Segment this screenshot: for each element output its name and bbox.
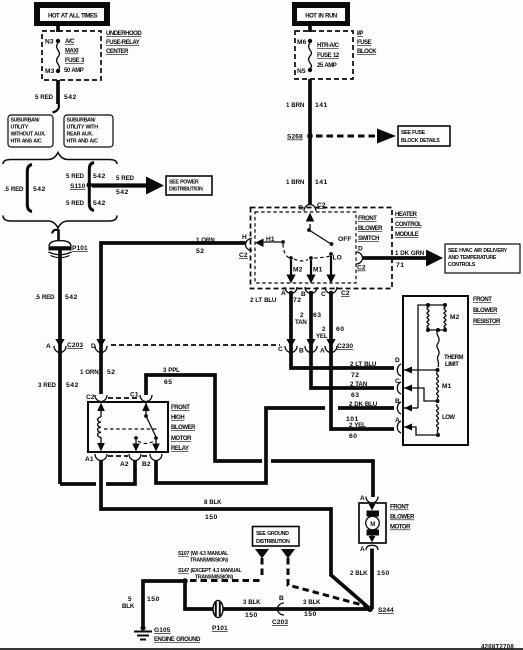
svg-text:25 AMP: 25 AMP — [317, 63, 337, 69]
svg-text:RESISTOR: RESISTOR — [473, 319, 501, 325]
svg-text:FUSE-RELAY: FUSE-RELAY — [106, 40, 140, 46]
svg-text:71: 71 — [396, 262, 404, 269]
svg-text:P101: P101 — [212, 625, 228, 632]
svg-text:S268: S268 — [287, 134, 303, 141]
svg-text:B: B — [279, 595, 284, 602]
svg-text:C: C — [395, 378, 400, 385]
svg-text:BLOCK: BLOCK — [357, 49, 377, 55]
svg-text:G105: G105 — [154, 627, 171, 634]
svg-text:5 RED: 5 RED — [35, 94, 54, 101]
svg-text:LIMIT: LIMIT — [445, 362, 459, 368]
svg-text:S110: S110 — [70, 183, 86, 190]
svg-text:BLOWER: BLOWER — [171, 425, 196, 431]
svg-text:2 YEL: 2 YEL — [349, 422, 366, 429]
svg-text:BLOWER: BLOWER — [358, 226, 383, 232]
svg-text:HTR AND A/C: HTR AND A/C — [67, 139, 99, 145]
svg-text:1 ORN: 1 ORN — [196, 237, 215, 244]
svg-text:MODULE: MODULE — [395, 232, 419, 238]
svg-text:A2: A2 — [120, 461, 129, 468]
svg-text:5 RED: 5 RED — [66, 200, 85, 207]
svg-text:N3: N3 — [45, 39, 54, 46]
svg-text:A: A — [281, 290, 286, 297]
svg-text:BLOWER: BLOWER — [473, 308, 498, 314]
svg-text:MAXI: MAXI — [65, 49, 79, 55]
svg-text:60: 60 — [349, 433, 357, 440]
svg-text:2: 2 — [300, 312, 304, 319]
svg-text:C: C — [321, 291, 326, 298]
svg-text:542: 542 — [33, 186, 46, 193]
svg-text:2: 2 — [322, 326, 326, 333]
svg-text:C2: C2 — [239, 252, 248, 259]
svg-text:TRANSMISSION): TRANSMISSION) — [195, 575, 233, 581]
svg-text:SWITCH: SWITCH — [358, 236, 379, 242]
svg-text:M2: M2 — [450, 314, 460, 321]
svg-text:C203: C203 — [272, 619, 288, 626]
svg-text:2 LT BLU: 2 LT BLU — [250, 297, 277, 304]
svg-text:A: A — [320, 348, 325, 355]
svg-text:C2: C2 — [317, 202, 326, 209]
svg-text:5 RED: 5 RED — [116, 175, 135, 182]
svg-text:1 ORN: 1 ORN — [80, 369, 99, 376]
svg-text:3 RED: 3 RED — [38, 382, 57, 389]
svg-text:52: 52 — [107, 369, 115, 376]
svg-text:M1: M1 — [442, 383, 452, 390]
svg-text:SEE GROUND: SEE GROUND — [256, 531, 289, 537]
svg-text:2 LT BLU: 2 LT BLU — [350, 361, 377, 368]
svg-text:MOTOR: MOTOR — [171, 436, 192, 442]
svg-text:UNDERHOOD: UNDERHOOD — [106, 31, 142, 37]
svg-text:C2: C2 — [357, 265, 366, 272]
svg-text:FUSE: FUSE — [357, 40, 372, 46]
svg-text:5: 5 — [128, 596, 132, 603]
svg-text:60: 60 — [336, 326, 344, 333]
svg-text:FUSE 12: FUSE 12 — [317, 53, 340, 59]
svg-text:G: G — [298, 205, 303, 212]
svg-text:5 RED: 5 RED — [66, 173, 85, 180]
svg-text:HTR-A/C: HTR-A/C — [317, 43, 340, 49]
svg-text:A: A — [360, 546, 365, 553]
svg-text:B: B — [299, 348, 304, 355]
svg-text:542: 542 — [93, 173, 106, 180]
svg-text:A: A — [395, 417, 400, 424]
svg-text:M: M — [370, 522, 375, 528]
svg-text:FRONT: FRONT — [171, 405, 190, 411]
svg-text:CONTROL: CONTROL — [395, 222, 422, 228]
svg-text:REAR AUX.: REAR AUX. — [67, 132, 94, 138]
svg-text:FRONT: FRONT — [473, 297, 492, 303]
svg-text:D: D — [358, 246, 363, 253]
svg-text:S244: S244 — [378, 607, 394, 614]
svg-text:FUSE 3: FUSE 3 — [65, 58, 85, 64]
svg-text:DISTRIBUTION: DISTRIBUTION — [169, 187, 203, 193]
svg-text:RELAY: RELAY — [171, 446, 189, 452]
svg-text:AND TEMPERATURE: AND TEMPERATURE — [448, 255, 497, 261]
svg-text:150: 150 — [304, 611, 317, 618]
svg-text:A/C: A/C — [65, 39, 75, 45]
svg-text:I/P: I/P — [357, 31, 363, 37]
svg-text:D: D — [395, 357, 400, 364]
svg-text:542: 542 — [116, 189, 129, 196]
svg-text:M6: M6 — [297, 39, 307, 46]
svg-text:LO: LO — [333, 255, 342, 262]
svg-text:MOTOR: MOTOR — [390, 525, 411, 531]
svg-text:TRANSMISSION): TRANSMISSION) — [190, 558, 228, 564]
svg-text:LOW: LOW — [442, 415, 455, 421]
svg-text:BLOWER: BLOWER — [390, 515, 415, 521]
svg-text:HEATER: HEATER — [395, 212, 418, 218]
svg-text:ENGINE GROUND: ENGINE GROUND — [154, 637, 201, 643]
svg-text:S107 (W/ 4.3 MANUAL: S107 (W/ 4.3 MANUAL — [178, 551, 229, 557]
svg-text:.5 RED: .5 RED — [35, 294, 55, 301]
svg-text:542: 542 — [64, 94, 77, 101]
svg-text:141: 141 — [315, 102, 328, 109]
svg-text:WITHOUT AUX.: WITHOUT AUX. — [11, 132, 47, 138]
svg-text:SEE FUSE: SEE FUSE — [401, 130, 426, 136]
svg-text:150: 150 — [245, 612, 258, 619]
svg-text:150: 150 — [205, 514, 218, 521]
svg-text:2 TAN: 2 TAN — [350, 381, 368, 388]
svg-text:A1: A1 — [85, 456, 94, 463]
svg-text:CONTROLS: CONTROLS — [448, 262, 476, 268]
svg-text:M2: M2 — [293, 267, 303, 274]
svg-text:C203: C203 — [67, 342, 83, 349]
svg-text:HOT IN RUN: HOT IN RUN — [305, 13, 337, 19]
svg-text:HIGH: HIGH — [171, 415, 184, 421]
svg-text:B: B — [301, 291, 306, 298]
svg-text:N5: N5 — [297, 68, 306, 75]
svg-text:542: 542 — [66, 382, 79, 389]
svg-text:SEE POWER: SEE POWER — [169, 180, 199, 186]
svg-text:FRONT: FRONT — [390, 505, 409, 511]
svg-text:H: H — [242, 234, 247, 241]
svg-text:1 BRN: 1 BRN — [286, 179, 305, 186]
svg-text:1 DK GRN: 1 DK GRN — [395, 250, 425, 257]
svg-text:BLOCK DETAILS: BLOCK DETAILS — [401, 138, 440, 144]
svg-text:A: A — [46, 343, 51, 350]
svg-text:52: 52 — [196, 248, 204, 255]
svg-text:3 PPL: 3 PPL — [163, 367, 180, 374]
svg-text:C2: C2 — [341, 290, 350, 297]
svg-text:CENTER: CENTER — [106, 49, 129, 55]
svg-text:M3: M3 — [45, 68, 55, 75]
svg-text:150: 150 — [377, 570, 390, 577]
svg-text:UTILITY WITH: UTILITY WITH — [67, 125, 99, 131]
svg-text:3 BLK: 3 BLK — [243, 599, 261, 606]
svg-text:8 BLK: 8 BLK — [204, 499, 222, 506]
svg-text:C: C — [278, 346, 283, 353]
svg-text:141: 141 — [315, 179, 328, 186]
svg-text:3 BLK: 3 BLK — [303, 599, 321, 606]
svg-text:HTR ANS A/C: HTR ANS A/C — [11, 139, 42, 145]
svg-text:C2: C2 — [86, 394, 95, 401]
svg-text:OFF: OFF — [338, 236, 351, 243]
svg-text:72: 72 — [351, 372, 359, 379]
svg-text:SEE HVAC AIR DELIVERY: SEE HVAC AIR DELIVERY — [448, 248, 508, 254]
svg-text:D: D — [91, 343, 96, 350]
svg-text:YEL: YEL — [316, 333, 328, 340]
svg-text:72: 72 — [293, 297, 301, 304]
svg-text:542: 542 — [93, 200, 106, 207]
svg-text:HOT AT ALL TIMES: HOT AT ALL TIMES — [48, 13, 98, 19]
svg-text:TAN: TAN — [295, 319, 307, 326]
svg-text:1 BRN: 1 BRN — [286, 102, 305, 109]
svg-text:B: B — [395, 398, 400, 405]
svg-text:63: 63 — [351, 392, 359, 399]
svg-text:DISTRIBUTION: DISTRIBUTION — [256, 539, 290, 545]
svg-text:SUBURBAN/: SUBURBAN/ — [67, 118, 97, 124]
svg-text:BLK: BLK — [122, 603, 135, 610]
svg-text:C230: C230 — [337, 343, 353, 350]
svg-text:SUBURBAN/: SUBURBAN/ — [11, 118, 41, 124]
svg-text:P101: P101 — [72, 245, 88, 252]
svg-text:2 BLK: 2 BLK — [350, 570, 368, 577]
svg-text:.5 RED: .5 RED — [4, 186, 24, 193]
svg-text:M1: M1 — [313, 267, 323, 274]
svg-text:65: 65 — [164, 379, 172, 386]
svg-text:FRONT: FRONT — [358, 216, 377, 222]
svg-text:542: 542 — [65, 294, 78, 301]
svg-text:B2: B2 — [142, 461, 151, 468]
svg-text:150: 150 — [147, 596, 160, 603]
svg-text:63: 63 — [313, 312, 321, 319]
svg-text:UTILITY: UTILITY — [11, 125, 29, 131]
svg-text:THERM: THERM — [444, 355, 464, 361]
svg-text:S147 (EXCEPT 4.3 MANUAL: S147 (EXCEPT 4.3 MANUAL — [178, 568, 242, 574]
svg-text:A: A — [360, 495, 365, 502]
svg-text:50 AMP: 50 AMP — [64, 68, 84, 74]
